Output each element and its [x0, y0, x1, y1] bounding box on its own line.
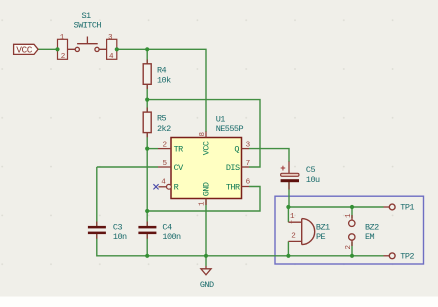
pin 5 CV — [158, 166, 171, 168]
wire top rail to R4 — [146, 49, 148, 99]
graphic box (blue frame around buzzer section) — [275, 196, 424, 264]
pin 2 TR — [158, 148, 171, 150]
junction TR node — [145, 147, 149, 151]
junction BZ2 top rail — [350, 205, 354, 209]
svg-text:TP2: TP2 — [400, 251, 414, 261]
svg-text:EM: EM — [365, 232, 375, 242]
pin 3 Q — [242, 148, 250, 150]
capacitor C5 polarized — [280, 162, 299, 190]
wire C4 bottom — [146, 234, 148, 256]
wire GND pin down — [205, 199, 207, 256]
wire VCC to switch — [38, 48, 58, 50]
power label VCC — [14, 44, 38, 55]
svg-text:C4: C4 — [162, 222, 172, 232]
wire box top rail to TP1 — [288, 206, 383, 208]
resistor R5 — [143, 108, 151, 138]
wire BZ1 pin1 — [287, 207, 289, 222]
wire C4 top stub — [146, 211, 148, 226]
svg-text:GND: GND — [202, 182, 212, 196]
svg-text:S1: S1 — [81, 11, 91, 21]
svg-text:2k2: 2k2 — [157, 124, 171, 134]
svg-text:10k: 10k — [157, 76, 171, 86]
svg-text:R5: R5 — [157, 114, 167, 124]
svg-text:10n: 10n — [113, 232, 127, 242]
junction switch pins 3-4 — [115, 47, 119, 51]
svg-text:R4: R4 — [157, 66, 167, 76]
junction BZ1 ground rail — [286, 254, 290, 258]
svg-text:TR: TR — [174, 145, 184, 155]
svg-text:10u: 10u — [306, 175, 320, 185]
svg-text:NE555P: NE555P — [216, 124, 244, 134]
wire R5 to TR node — [146, 100, 148, 149]
switch S1 — [58, 37, 117, 60]
junction top rail R4 — [145, 47, 149, 51]
capacitor C4 — [138, 222, 156, 239]
IC U1 NE555P — [158, 132, 249, 206]
svg-text:VCC: VCC — [16, 44, 33, 55]
buzzer BZ1 — [288, 219, 314, 245]
svg-text:GND: GND — [200, 280, 214, 290]
svg-text:CV: CV — [174, 163, 185, 173]
svg-text:7: 7 — [246, 160, 250, 168]
svg-text:+: + — [280, 164, 285, 174]
pin 7 DIS — [242, 166, 250, 168]
svg-text:Q: Q — [234, 145, 239, 155]
junction C5 BZ1 top rail — [286, 205, 290, 209]
buzzer BZ2 — [349, 215, 355, 246]
wire C5 bottom to box rail — [288, 182, 290, 207]
wire TR node down to C4 node — [146, 149, 148, 211]
svg-text:DIS: DIS — [226, 163, 240, 173]
svg-text:PE: PE — [316, 232, 326, 242]
svg-text:100n: 100n — [162, 232, 181, 242]
svg-text:TP1: TP1 — [400, 203, 414, 213]
pin 4 R with bubble — [159, 186, 167, 188]
wire TR — [147, 148, 158, 150]
pin 6 THR — [242, 186, 250, 188]
junction R4 R5 DIS — [145, 98, 149, 102]
svg-text:VCC: VCC — [202, 141, 212, 155]
junction C4 ground rail — [145, 254, 149, 258]
junction GND ground rail — [204, 254, 208, 258]
svg-text:THR: THR — [226, 183, 240, 193]
test point TP1 — [384, 204, 396, 210]
wire CV — [97, 166, 158, 168]
no-connect X on pin 4 — [153, 184, 158, 189]
pin 1 GND bottom — [205, 199, 207, 206]
svg-text:R: R — [174, 183, 179, 193]
pin 8 VCC top — [205, 132, 207, 138]
wire R4/R5 node to DIS — [147, 100, 260, 167]
svg-text:C3: C3 — [113, 222, 123, 232]
wire switch to top rail and down to pin 8 — [117, 49, 206, 132]
wire BZ2 pin2 — [351, 242, 353, 256]
wire Q to C5 — [249, 149, 289, 162]
resistor R4 — [143, 60, 151, 90]
svg-text:+: + — [289, 219, 293, 226]
ground symbol — [201, 266, 211, 275]
svg-text:SWITCH: SWITCH — [74, 21, 102, 31]
wire GND symbol stub — [205, 256, 207, 266]
wire THR to C4 node — [147, 187, 260, 212]
wire C3 bottom to ground rail to TP2 — [97, 234, 384, 256]
junction THR C4 node — [145, 209, 149, 213]
wire CV down to C3 — [96, 167, 98, 226]
junction BZ2 ground rail — [350, 254, 354, 258]
wire BZ2 pin1 — [351, 207, 353, 218]
svg-text:U1: U1 — [216, 114, 226, 124]
wire BZ1 pin2 — [287, 241, 289, 255]
svg-text:C5: C5 — [306, 165, 316, 175]
junction switch pins 1-2 — [55, 47, 59, 51]
test point TP2 — [384, 253, 396, 259]
capacitor C3 — [88, 222, 106, 239]
